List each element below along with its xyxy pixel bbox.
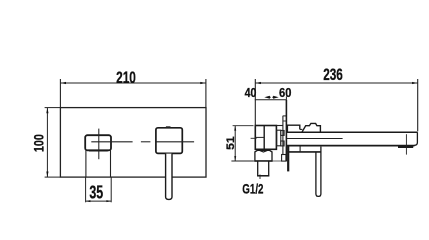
svg-text:51: 51 <box>225 136 237 150</box>
dim 236 arrow left <box>255 82 261 84</box>
dim 40-60 right extension stub <box>285 97 287 100</box>
svg-text:35: 35 <box>89 182 103 203</box>
dim 40-60 line <box>255 99 287 101</box>
spout base band <box>89 150 108 152</box>
dim 236 arrow right <box>412 82 418 84</box>
dim 51 arrow bottom <box>234 156 236 161</box>
inlet pipe <box>258 161 269 176</box>
spout top line <box>286 131 417 133</box>
inlet pipe bottom edge <box>257 175 269 177</box>
plate tick top <box>283 115 286 117</box>
svg-text:40: 40 <box>245 86 257 100</box>
small block at plate <box>282 155 286 162</box>
dim 35 extension line left <box>85 177 87 202</box>
valve body internal vertical <box>263 126 265 150</box>
nut chamfer notch <box>259 150 267 152</box>
spout body side line right <box>110 150 112 177</box>
protrusion tab bottom <box>281 141 284 146</box>
dim 100 arrow bottom <box>46 172 48 178</box>
dim 210 arrow right <box>200 82 206 84</box>
dim 236 line <box>255 82 417 84</box>
dim 210 arrow left <box>60 82 66 84</box>
svg-text:100: 100 <box>32 134 47 152</box>
dim 51 extension line bottom <box>231 160 254 162</box>
aerator centerline <box>405 134 407 154</box>
wall plate front line (side) <box>285 100 287 162</box>
horizontal centerline segment 1 <box>91 141 132 143</box>
handle arm tick <box>299 147 301 152</box>
body protrusion <box>277 130 281 146</box>
svg-text:60: 60 <box>279 86 291 100</box>
spout inner line <box>287 138 343 140</box>
dim 51 arrow top <box>234 126 236 131</box>
horizontal centerline segment 2 <box>156 141 194 143</box>
dim 100 extension line top <box>45 107 61 109</box>
handle rod (front) <box>166 154 172 200</box>
valve axis tick <box>251 137 257 139</box>
handle cap (side) <box>302 123 321 132</box>
dim 100 line <box>46 108 48 178</box>
notch line <box>300 128 303 130</box>
dim 35 arrow left <box>86 200 91 202</box>
svg-text:210: 210 <box>116 69 136 87</box>
nut bottom edge <box>254 160 272 162</box>
dim 51 line <box>234 126 236 161</box>
valve body <box>255 126 276 150</box>
handle square (front) <box>156 128 182 154</box>
dim 210 line <box>60 82 206 84</box>
dim 35 line <box>86 200 112 202</box>
range arrow left <box>264 96 270 99</box>
dim 35 arrow right <box>106 200 111 202</box>
lower bar behind handle <box>287 146 289 171</box>
pipe centerline tick <box>259 175 261 180</box>
handle bump on top <box>166 126 171 128</box>
svg-text:G1/2: G1/2 <box>242 182 263 198</box>
wall plate rectangle <box>60 108 206 178</box>
aerator <box>398 146 413 148</box>
valve body internal horizontal <box>255 136 264 138</box>
svg-text:236: 236 <box>323 66 343 84</box>
dim 51 extension line top <box>233 125 254 127</box>
spout square (front) <box>85 135 111 150</box>
wall plate back line (side) <box>282 116 284 162</box>
body top edge extension to plate <box>276 125 283 127</box>
nut bottom continuation to plate block <box>272 160 281 162</box>
dim 100 extension line bottom <box>45 176 61 178</box>
handle bar (side) <box>316 147 321 197</box>
spout body side line left <box>85 150 87 177</box>
spout bottom line <box>286 145 414 147</box>
dim 210 extension line left <box>59 79 61 108</box>
escutcheon ring on spout <box>287 125 299 132</box>
dim 236 extension line right <box>417 79 419 131</box>
protrusion tab top <box>281 131 284 136</box>
spout vertical centerline <box>98 129 100 160</box>
dim 100 arrow top <box>46 108 48 114</box>
range arrow right <box>273 96 279 99</box>
spout end rounded <box>414 132 417 145</box>
dim 236 extension line left / body left edge upper <box>254 79 256 126</box>
dim 35 extension line right <box>110 177 112 202</box>
plate tick 2 <box>283 120 286 122</box>
dim 210 extension line right <box>205 79 207 108</box>
connection nut <box>255 150 272 161</box>
horizontal centerline dash <box>141 141 151 143</box>
handle arm bottom line <box>287 151 321 153</box>
